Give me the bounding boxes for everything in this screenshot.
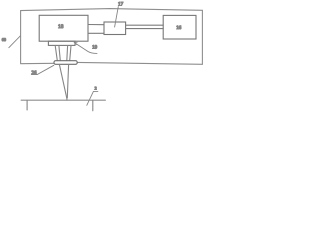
svg-text:19: 19 <box>92 45 98 51</box>
leader to workpiece 2 <box>87 91 98 105</box>
nozzle plate 26 (pill on housing bottom) <box>54 61 77 65</box>
flange 19 (lens mount under box 18) <box>48 41 75 45</box>
tube 18-17 (double line connector) <box>88 25 104 34</box>
svg-text:17: 17 <box>118 2 124 8</box>
cone (inner right wall) <box>66 46 69 61</box>
cone (outer right wall) <box>70 46 71 61</box>
workpiece 2 (surface line) <box>21 99 105 101</box>
beam left edge <box>59 65 66 98</box>
leader to box 17 <box>115 7 119 27</box>
beam right edge <box>67 65 68 98</box>
cone (inner left wall) <box>59 46 60 61</box>
svg-text:16: 16 <box>176 25 182 31</box>
leader to nozzle 26 <box>31 65 53 74</box>
svg-text:2: 2 <box>95 85 97 90</box>
workpiece tick left <box>26 100 28 110</box>
box 18 (laser source) <box>39 15 88 41</box>
box 17 <box>104 22 126 35</box>
housing 60 (outer enclosure) <box>21 9 203 65</box>
leader to housing 60 <box>9 36 21 48</box>
cone (lens barrel, outer left wall) <box>55 46 57 61</box>
svg-text:26: 26 <box>32 70 38 76</box>
workpiece tick right <box>92 100 94 110</box>
beam apex <box>66 98 68 100</box>
svg-text:18: 18 <box>58 24 64 30</box>
box 16 <box>163 15 196 39</box>
arrowhead of leader 19 <box>74 42 77 44</box>
tube 17-16 (double line connector) <box>126 25 164 28</box>
svg-text:60: 60 <box>2 37 6 42</box>
leader to flange 19 <box>74 43 97 54</box>
